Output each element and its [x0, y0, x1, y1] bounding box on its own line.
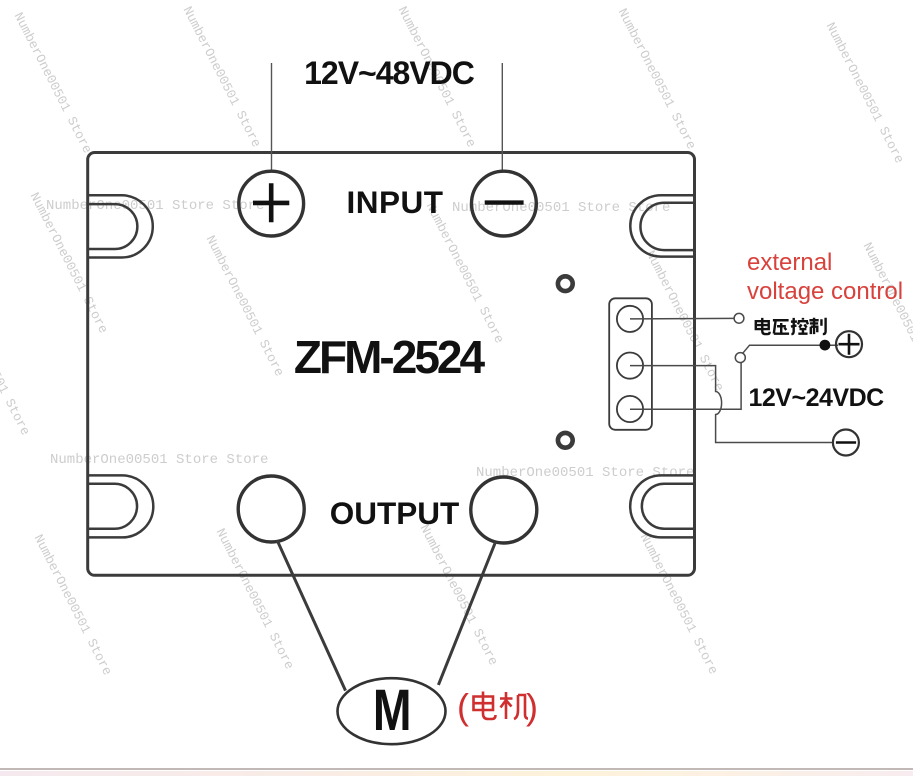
- mounting slot bottom-right: [630, 475, 694, 537]
- mounting slot bottom-left: [88, 475, 153, 537]
- supply terminal + 12V~24VDC: [836, 331, 862, 357]
- connector pin 3: [617, 396, 643, 422]
- input terminal +: [239, 171, 304, 236]
- node voltage control (open circle): [734, 313, 744, 323]
- wire output-left to motor: [277, 540, 346, 691]
- module body ZFM-2524 outline: [88, 153, 695, 576]
- supply terminal - 12V~24VDC: [833, 430, 859, 456]
- vent hole upper: [558, 276, 573, 291]
- label OUTPUT: [328, 497, 461, 530]
- wire output-right to motor: [438, 542, 495, 685]
- output terminal left: [238, 476, 304, 542]
- mounting slot top-left: [88, 195, 153, 257]
- label 12V~48VDC: [303, 57, 475, 89]
- connector pin 1: [617, 306, 643, 332]
- connector pin 2: [617, 353, 643, 379]
- label M motor: [362, 685, 422, 737]
- wire pin2 to minus supply with hop: [630, 366, 833, 443]
- output terminal right: [471, 477, 537, 543]
- wire pin3 to plus supply: [630, 363, 741, 409]
- watermark layer: [46, 198, 264, 214]
- wire switch diagonal to plus rail: [743, 345, 838, 353]
- bottom page strip: [0, 768, 913, 770]
- input terminal -: [472, 171, 537, 236]
- wire 12V~48VDC to + input: [271, 63, 273, 172]
- label (电机) motor chinese, red: [457, 688, 469, 726]
- wire pin1 to voltage-control node: [630, 317, 734, 320]
- node switch (open circle): [735, 353, 745, 363]
- mounting slot top-right: [630, 195, 694, 256]
- label ZFM-2524: [288, 334, 488, 380]
- label 电压控制 (voltage control, chinese): [753, 317, 827, 337]
- junction dot on plus rail: [820, 340, 831, 351]
- label INPUT: [345, 186, 445, 218]
- wire 12V~48VDC to - input: [501, 63, 503, 172]
- vent hole lower: [558, 433, 573, 448]
- label 12V~24VDC: [749, 386, 884, 411]
- label external voltage control: [747, 249, 903, 306]
- motor M symbol: [338, 678, 446, 744]
- control connector block J1: [609, 298, 652, 430]
